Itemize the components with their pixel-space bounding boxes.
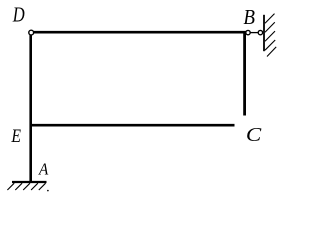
hinge circle at D [29, 30, 34, 35]
wall hatch 3 [265, 31, 275, 41]
ground hatch 1 [7, 183, 14, 190]
wall hatch 4 [265, 40, 275, 50]
svg-text:C: C [246, 123, 262, 146]
svg-text:B: B [243, 6, 255, 29]
link bar at B support [249, 32, 259, 34]
svg-text:D: D [12, 4, 25, 27]
member EC (middle beam) [30, 124, 235, 127]
ground hatch dot [47, 190, 49, 192]
svg-text:A: A [38, 161, 48, 179]
member DA (left column) [29, 32, 32, 182]
wall hatch 5 [267, 47, 276, 57]
member DB (top beam) [31, 31, 246, 34]
svg-text:E: E [11, 124, 22, 146]
hinge circle B1 [246, 30, 250, 34]
ground hatch 2 [15, 183, 22, 190]
hinge circle B2 [258, 30, 262, 34]
wall hatch 2 [265, 22, 275, 32]
wall hatch 1 [265, 14, 275, 24]
ground line at A support [12, 181, 47, 183]
ground hatch 4 [31, 183, 38, 190]
member BC (right column) [243, 31, 246, 116]
ground hatch 5 [39, 183, 46, 190]
wall line at B support [263, 15, 265, 51]
ground hatch 3 [23, 183, 30, 190]
